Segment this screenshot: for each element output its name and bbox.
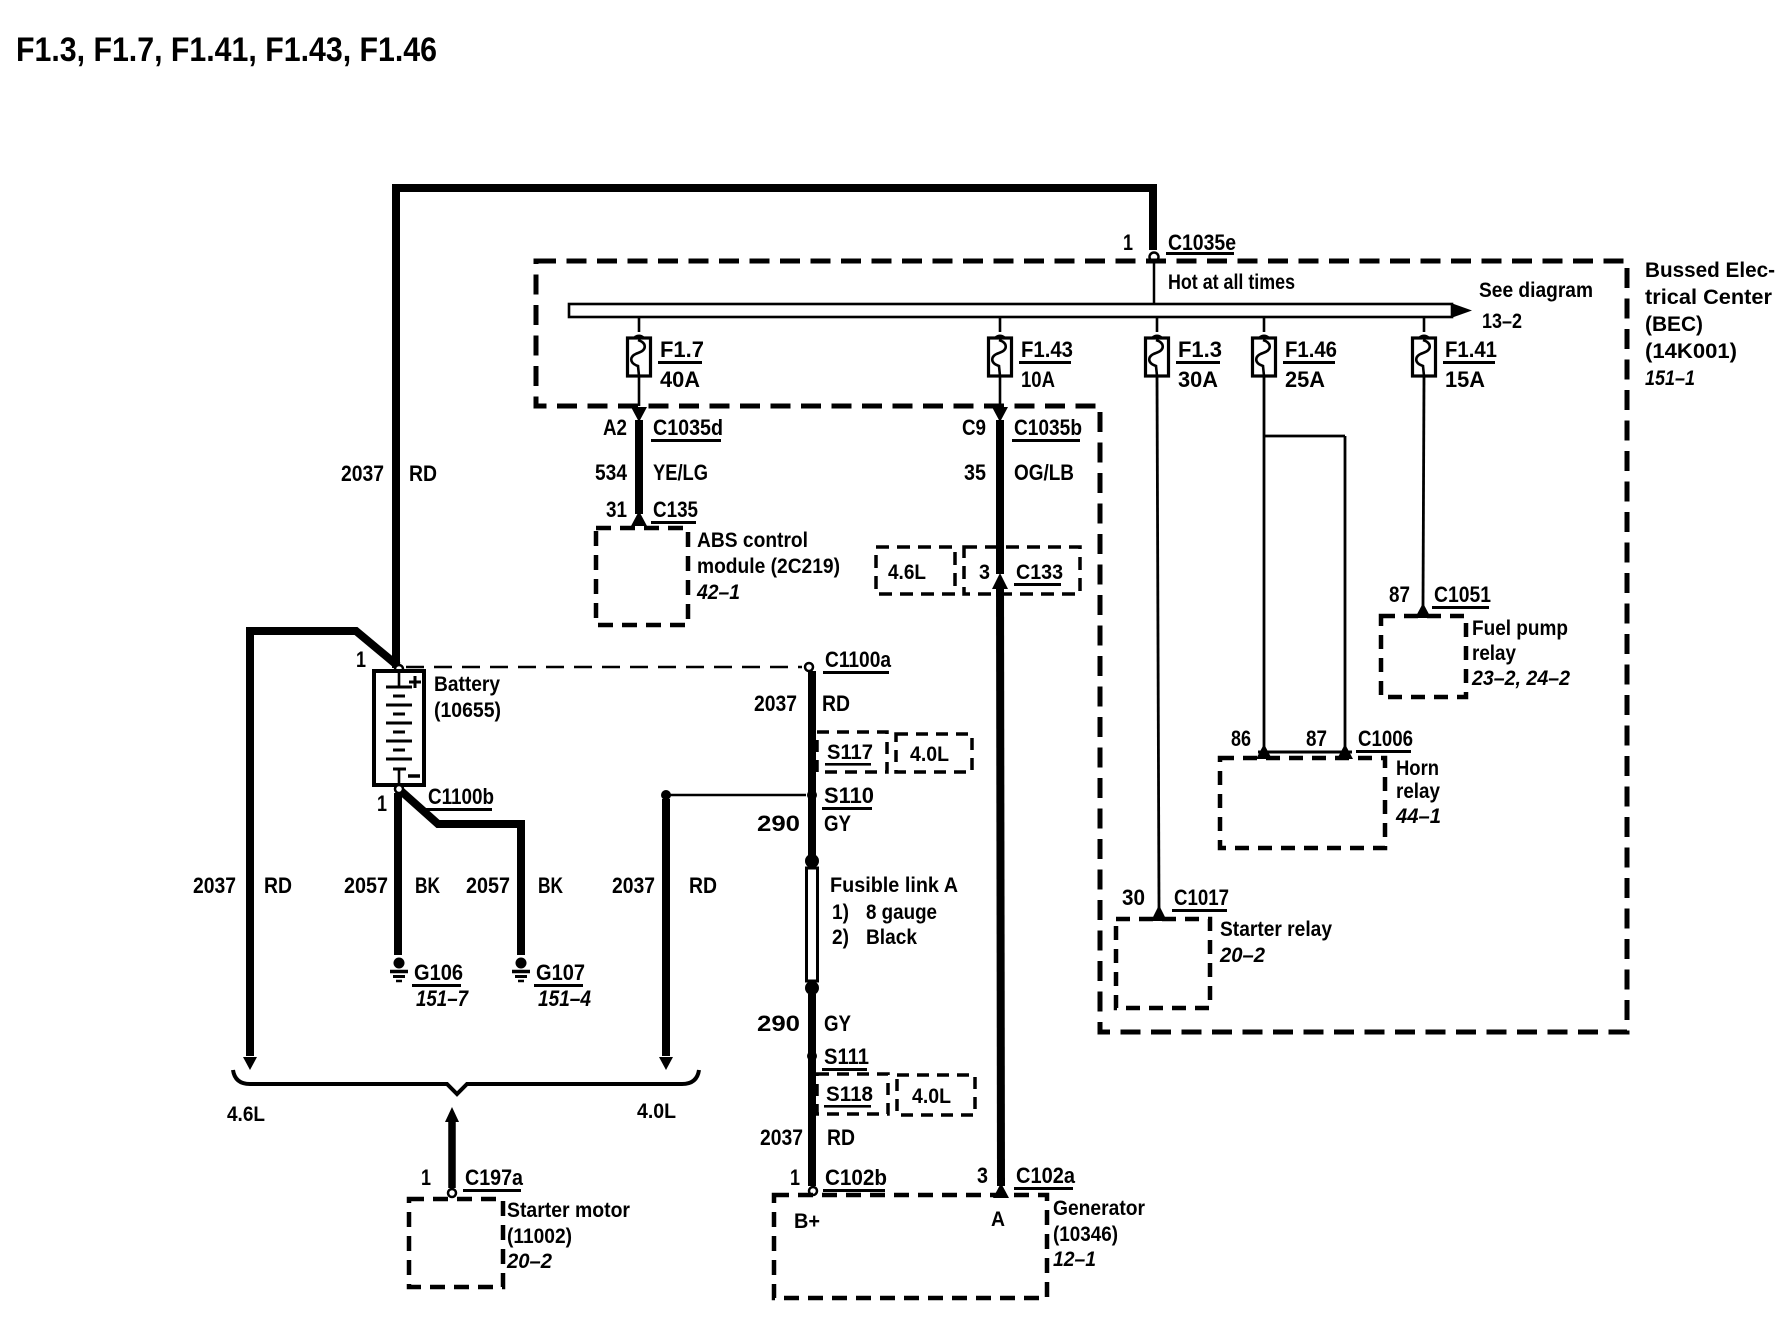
- svg-text:534: 534: [595, 460, 628, 485]
- svg-text:4.0L: 4.0L: [910, 743, 949, 766]
- connector C1035d pin A2: [603, 415, 723, 442]
- svg-text:S111: S111: [824, 1044, 869, 1069]
- svg-text:2037: 2037: [754, 691, 797, 716]
- svg-text:(14K001): (14K001): [1645, 340, 1737, 363]
- engine variant tag 4.0L (S117): [896, 734, 972, 772]
- svg-text:GY: GY: [824, 811, 851, 836]
- svg-text:RD: RD: [264, 873, 292, 898]
- horn relay: [1220, 757, 1441, 848]
- svg-text:1: 1: [356, 647, 366, 672]
- svg-text:Black: Black: [866, 926, 917, 949]
- svg-text:1: 1: [421, 1165, 431, 1190]
- starter relay connector C1017 pin 30: [1122, 885, 1229, 912]
- svg-text:87: 87: [1306, 726, 1327, 751]
- starter motor (11002): [409, 1199, 630, 1287]
- svg-text:C1035d: C1035d: [653, 415, 723, 440]
- svg-text:1: 1: [1123, 230, 1133, 255]
- fuse F1.41 15A: [1413, 317, 1498, 392]
- ABS control module (2C219): [596, 528, 840, 625]
- BEC label (14K001): [1645, 259, 1775, 390]
- svg-text:290: 290: [757, 1011, 800, 1036]
- svg-text:C1006: C1006: [1358, 726, 1413, 751]
- svg-text:Battery: Battery: [434, 673, 500, 696]
- generator (10346): [774, 1195, 1145, 1298]
- svg-text:RD: RD: [409, 461, 437, 486]
- svg-text:4.0L: 4.0L: [912, 1085, 951, 1108]
- connector C1100a dashed lead: [406, 647, 892, 674]
- svg-text:(BEC): (BEC): [1645, 313, 1703, 336]
- svg-text:2037: 2037: [612, 873, 655, 898]
- svg-text:12–1: 12–1: [1053, 1248, 1096, 1271]
- wire 2037 RD from C1100a down to generator B+: [754, 671, 850, 858]
- svg-text:ABS control: ABS control: [697, 529, 808, 552]
- svg-text:Hot at all times: Hot at all times: [1168, 271, 1295, 294]
- svg-text:40A: 40A: [660, 367, 700, 392]
- svg-text:RD: RD: [827, 1125, 855, 1150]
- svg-text:C1035e: C1035e: [1168, 230, 1236, 255]
- fuse F1.7 40A: [628, 317, 705, 392]
- fusible link A: [805, 854, 958, 995]
- wire brace to starter motor: [445, 1107, 459, 1188]
- fuel pump relay connector C1051 pin 87: [1389, 582, 1491, 609]
- svg-text:30A: 30A: [1178, 367, 1218, 392]
- svg-text:B+: B+: [794, 1210, 820, 1233]
- horn relay connector C1006 pins 86 87: [1231, 726, 1413, 753]
- svg-text:C9: C9: [962, 415, 986, 440]
- svg-text:30: 30: [1122, 885, 1145, 910]
- wire label 35 OG/LB: [964, 460, 1074, 485]
- svg-text:2): 2): [832, 926, 849, 949]
- svg-text:C102a: C102a: [1016, 1163, 1076, 1188]
- wire fuse F1.46 to horn relay pins 86 and 87: [1256, 376, 1353, 759]
- splice S110: [807, 783, 874, 810]
- engine variant brace 4.6L / 4.0L: [227, 1070, 699, 1126]
- svg-text:F1.3: F1.3: [1178, 337, 1222, 362]
- wire 2057 BK battery negative to G106: [344, 793, 440, 955]
- wire fuse F1.3 to starter relay: [1151, 376, 1167, 921]
- splice S117: [817, 732, 887, 772]
- svg-text:F1.3, F1.7, F1.41, F1.43, F1.4: F1.3, F1.7, F1.41, F1.43, F1.46: [16, 31, 437, 69]
- svg-text:151–7: 151–7: [416, 986, 469, 1011]
- svg-text:Starter motor: Starter motor: [507, 1199, 630, 1222]
- svg-text:relay: relay: [1472, 642, 1516, 665]
- svg-text:G107: G107: [536, 960, 585, 985]
- svg-text:RD: RD: [822, 691, 850, 716]
- wire S110 branch to 2037 RD leg: [661, 790, 806, 800]
- title: [16, 31, 437, 69]
- svg-text:module (2C219): module (2C219): [697, 555, 840, 578]
- svg-text:87: 87: [1389, 582, 1410, 607]
- svg-text:42–1: 42–1: [696, 581, 740, 604]
- svg-text:C1100a: C1100a: [825, 647, 892, 672]
- node C1035e pin 1: [1123, 230, 1236, 262]
- svg-text:C133: C133: [1016, 561, 1063, 584]
- svg-text:S118: S118: [826, 1083, 873, 1106]
- svg-text:(10655): (10655): [434, 699, 501, 722]
- connector C133 pin 3: [964, 547, 1080, 594]
- fuse F1.43 10A: [989, 317, 1074, 392]
- fuse F1.46 25A: [1253, 317, 1338, 392]
- svg-text:RD: RD: [689, 873, 717, 898]
- svg-text:15A: 15A: [1445, 367, 1485, 392]
- svg-text:relay: relay: [1396, 780, 1440, 803]
- svg-text:(11002): (11002): [507, 1225, 572, 1248]
- wire 534 YE/LG fuse F1.7 to ABS module: [631, 376, 647, 526]
- battery pin 1 (negative) connector C1100b: [377, 784, 494, 816]
- Bussed Electrical Center (BEC) dashed enclosure: [536, 261, 1627, 1032]
- svg-text:Starter relay: Starter relay: [1220, 918, 1332, 941]
- svg-text:F1.43: F1.43: [1021, 337, 1073, 362]
- svg-text:13–2: 13–2: [1482, 310, 1522, 333]
- svg-text:C135: C135: [653, 497, 698, 522]
- svg-text:Generator: Generator: [1053, 1197, 1145, 1220]
- engine variant tag 4.0L (S118): [897, 1075, 975, 1115]
- svg-text:23–2, 24–2: 23–2, 24–2: [1471, 667, 1570, 690]
- svg-text:86: 86: [1231, 726, 1251, 751]
- wire 2037 RD S110 branch down to brace (right leg): [612, 799, 717, 1070]
- svg-text:4.6L: 4.6L: [227, 1103, 265, 1126]
- svg-text:25A: 25A: [1285, 367, 1325, 392]
- svg-text:Fuel pump: Fuel pump: [1472, 617, 1568, 640]
- svg-text:2037: 2037: [193, 873, 236, 898]
- wire label 2037 RD (to B+): [760, 1125, 855, 1150]
- splice S118: [817, 1074, 888, 1114]
- svg-text:C1051: C1051: [1434, 582, 1491, 607]
- svg-text:1: 1: [790, 1165, 800, 1190]
- svg-text:1): 1): [832, 901, 849, 924]
- svg-text:F1.41: F1.41: [1445, 337, 1497, 362]
- svg-text:3: 3: [979, 561, 990, 584]
- svg-text:BK: BK: [415, 873, 440, 898]
- wire label 534 YE/LG: [595, 460, 708, 485]
- svg-text:2037: 2037: [760, 1125, 803, 1150]
- battery pin 1 (positive): [356, 647, 403, 673]
- power bus bar Hot at all times: [569, 271, 1593, 333]
- svg-text:C1035b: C1035b: [1014, 415, 1082, 440]
- svg-text:Horn: Horn: [1396, 757, 1439, 780]
- svg-text:2037: 2037: [341, 461, 384, 486]
- svg-text:10A: 10A: [1021, 367, 1055, 392]
- starter relay: [1116, 918, 1332, 1008]
- generator connector C102b pin 1: [790, 1165, 887, 1195]
- fuel pump relay: [1381, 616, 1570, 697]
- svg-text:G106: G106: [414, 960, 463, 985]
- wire 2037 RD battery to engine-variant brace (left leg): [193, 631, 398, 1070]
- starter motor connector C197a pin 1: [421, 1165, 524, 1197]
- svg-text:C1100b: C1100b: [428, 784, 494, 809]
- svg-text:4.6L: 4.6L: [888, 561, 926, 584]
- svg-text:35: 35: [964, 460, 986, 485]
- wire 290 GY lower: [757, 994, 851, 1186]
- wire 2057 BK battery negative to G107: [401, 791, 563, 955]
- svg-text:3: 3: [977, 1163, 988, 1188]
- svg-text:F1.46: F1.46: [1285, 337, 1337, 362]
- svg-text:4.0L: 4.0L: [637, 1100, 676, 1123]
- svg-text:151–1: 151–1: [1645, 367, 1695, 390]
- svg-text:BK: BK: [538, 873, 563, 898]
- svg-text:GY: GY: [824, 1011, 851, 1036]
- fuse F1.3 30A: [1146, 317, 1223, 392]
- connector C1035b pin C9: [962, 415, 1082, 442]
- svg-text:OG/LB: OG/LB: [1014, 460, 1074, 485]
- svg-text:290: 290: [757, 811, 800, 836]
- ground G106: [390, 958, 469, 1012]
- engine variant tag 4.6L: [876, 547, 955, 594]
- svg-text:2057: 2057: [466, 873, 510, 898]
- connector C135 pin 31: [606, 497, 698, 524]
- wire fuse F1.41 to fuel pump relay: [1415, 376, 1431, 618]
- svg-text:A2: A2: [603, 415, 627, 440]
- wire label 290 GY (upper): [757, 811, 851, 836]
- wire 2037 RD battery positive feed to C1035e: [396, 188, 1153, 668]
- svg-text:S110: S110: [824, 783, 874, 808]
- svg-text:Fusible link A: Fusible link A: [830, 874, 958, 897]
- svg-text:20–2: 20–2: [506, 1250, 552, 1273]
- svg-text:See diagram: See diagram: [1479, 279, 1593, 302]
- svg-text:A: A: [991, 1208, 1005, 1231]
- svg-text:C197a: C197a: [465, 1165, 524, 1190]
- ground G107: [512, 958, 591, 1012]
- svg-text:20–2: 20–2: [1219, 944, 1265, 967]
- svg-text:Bussed Elec-: Bussed Elec-: [1645, 259, 1775, 282]
- svg-text:31: 31: [606, 497, 627, 522]
- svg-text:F1.7: F1.7: [660, 337, 704, 362]
- svg-text:44–1: 44–1: [1395, 805, 1441, 828]
- wire 35 OG/LB fuse F1.43 to generator: [992, 376, 1009, 1198]
- svg-text:1: 1: [377, 791, 387, 816]
- wire C1035e to bus bar: [1153, 261, 1156, 304]
- battery (10655): [374, 671, 501, 785]
- svg-text:C1017: C1017: [1174, 885, 1229, 910]
- wire label 2037 RD above battery: [341, 461, 437, 486]
- svg-text:C102b: C102b: [825, 1165, 887, 1190]
- svg-text:trical Center: trical Center: [1645, 286, 1772, 309]
- svg-text:(10346): (10346): [1053, 1223, 1118, 1246]
- generator connector C102a pin 3: [977, 1163, 1076, 1190]
- splice S111: [807, 1044, 869, 1071]
- svg-text:2057: 2057: [344, 873, 388, 898]
- svg-text:S117: S117: [827, 741, 873, 764]
- svg-text:YE/LG: YE/LG: [653, 460, 708, 485]
- svg-text:151–4: 151–4: [538, 986, 591, 1011]
- svg-text:8 gauge: 8 gauge: [866, 901, 937, 924]
